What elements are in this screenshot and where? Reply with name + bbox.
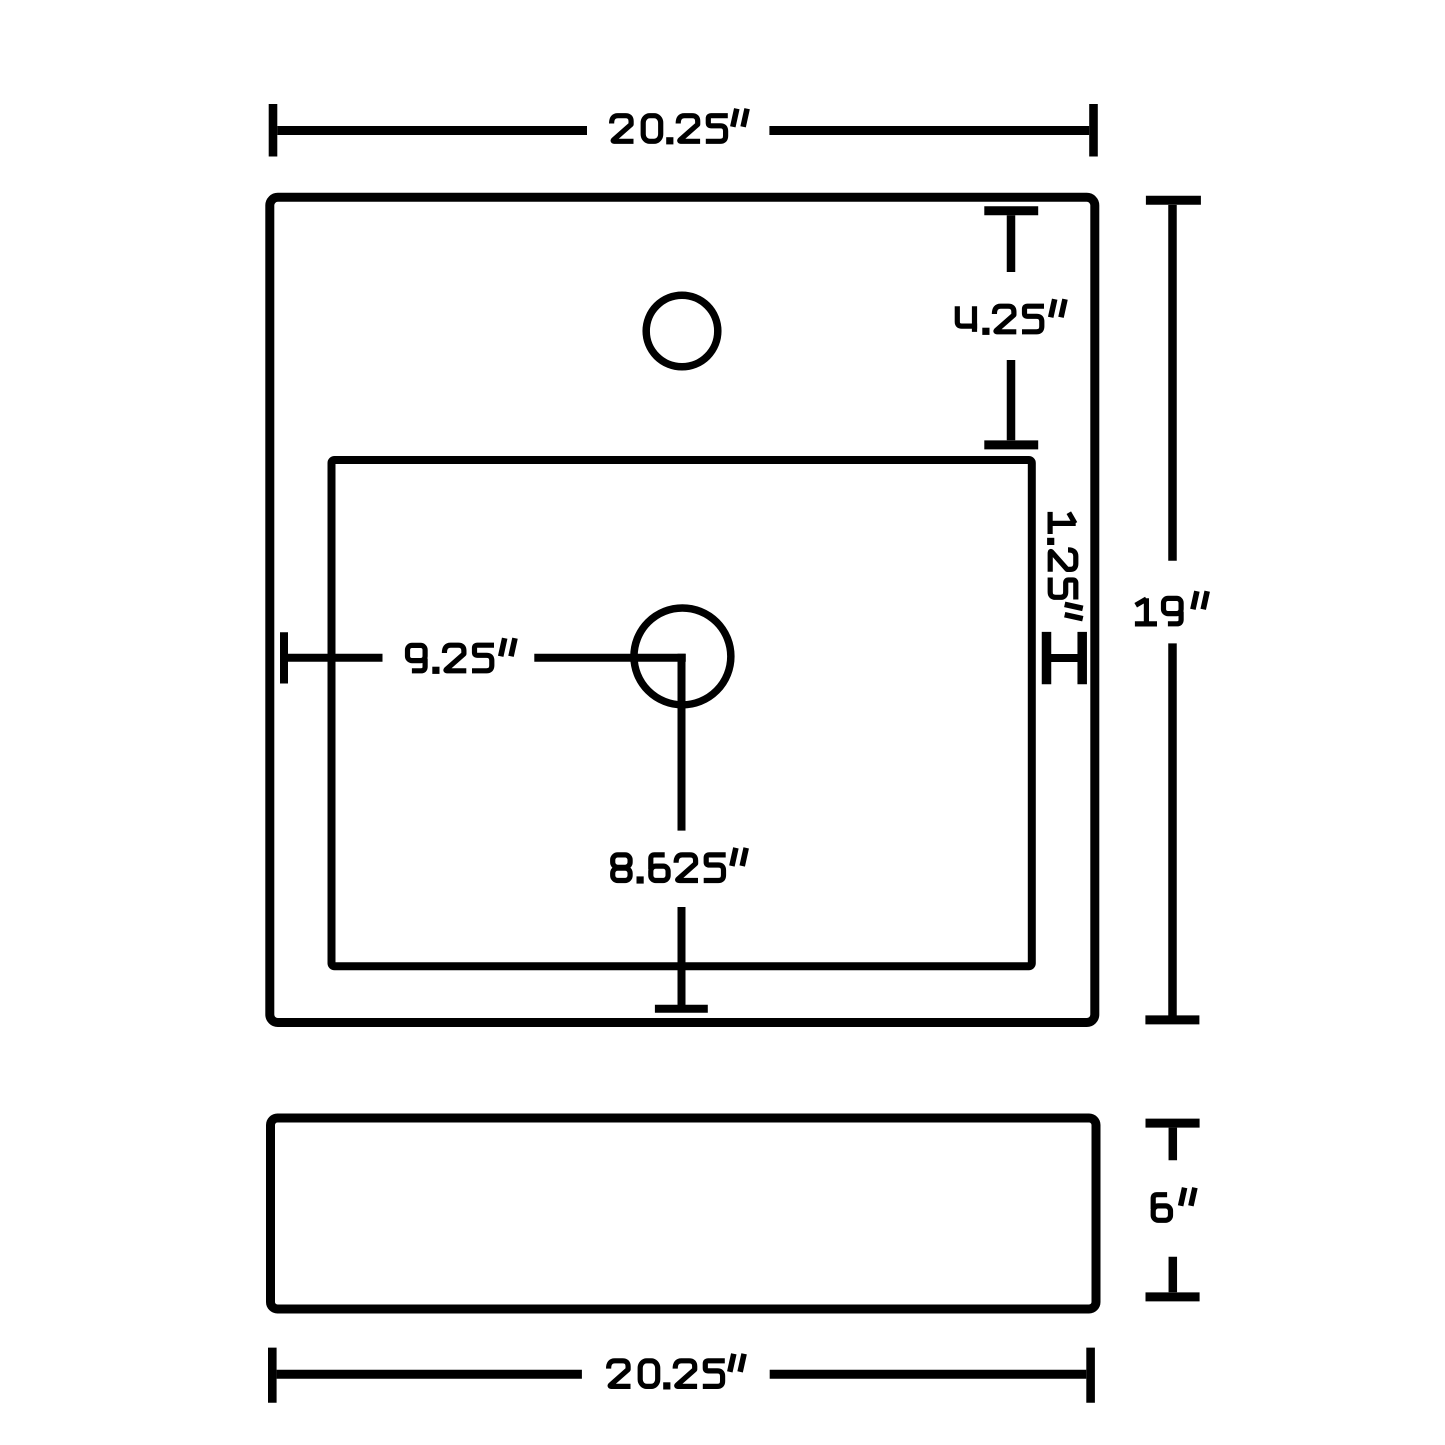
dimension 20.25in bottom: line right segment: [770, 1370, 1087, 1379]
dimension 9.25in: left tick: [280, 632, 288, 683]
dimension 4.25in: top tick bar: [984, 206, 1038, 215]
dimension 8.625in: stem lower segment: [678, 907, 686, 1012]
drain hole: [634, 608, 731, 705]
dimension 20.25in bottom: label text: [609, 1354, 745, 1390]
dimension 20.25in bottom: right tick: [1086, 1348, 1095, 1403]
dimension 19in: stem upper segment: [1168, 205, 1177, 561]
dimension 9.25in: label text: [408, 638, 516, 674]
dimension 4.25in: bottom tick bar: [984, 440, 1038, 449]
dimension 6in: top tick bar: [1146, 1119, 1200, 1128]
dimension 6in: label text: [1153, 1188, 1195, 1221]
dimension 20.25in bottom: left tick: [268, 1348, 277, 1403]
dimension 1.25in: connector line: [1047, 654, 1083, 662]
dimension 9.25in: line right segment: [534, 654, 686, 662]
dimension 20.25in top: line right segment: [769, 126, 1089, 135]
dimension 4.25in: stem lower segment: [1007, 360, 1016, 440]
sink outer rim (top view): [270, 197, 1095, 1022]
dimension 8.625in: stem upper segment: [678, 654, 686, 831]
dimension 8.625in: label text: [613, 848, 747, 884]
sink side profile (front view): [271, 1118, 1097, 1309]
dimension 20.25in top: left tick: [269, 104, 278, 157]
dimension 6in: stem lower segment: [1169, 1257, 1178, 1292]
dimension 1.25in: rotated label text: [1047, 512, 1083, 619]
dimension 6in: bottom tick bar: [1146, 1292, 1200, 1301]
dimension 20.25in top: label text: [612, 109, 748, 145]
dimension 4.25in: stem upper segment: [1007, 215, 1016, 272]
dimension 8.625in: bottom tick bar: [655, 1005, 708, 1013]
dimension 19in: top tick bar: [1146, 196, 1201, 205]
dimension 6in: stem upper segment: [1169, 1128, 1178, 1161]
basin inner rim: [332, 460, 1032, 966]
dimension 19in: label text: [1135, 591, 1207, 624]
dimension 19in: stem lower segment: [1168, 643, 1177, 1015]
faucet hole: [646, 295, 718, 367]
dimension 1.25in: right tick bar: [1077, 632, 1087, 684]
dimension 20.25in top: line left segment: [277, 126, 587, 135]
dimension 1.25in: left tick bar: [1042, 632, 1052, 684]
dimension 9.25in: line left segment: [284, 654, 383, 662]
dimension 20.25in bottom: line left segment: [277, 1370, 582, 1379]
dimension 20.25in top: right tick: [1089, 104, 1098, 157]
dimension 19in: bottom tick bar: [1145, 1015, 1199, 1024]
dimension 4.25in: label text: [957, 299, 1065, 335]
